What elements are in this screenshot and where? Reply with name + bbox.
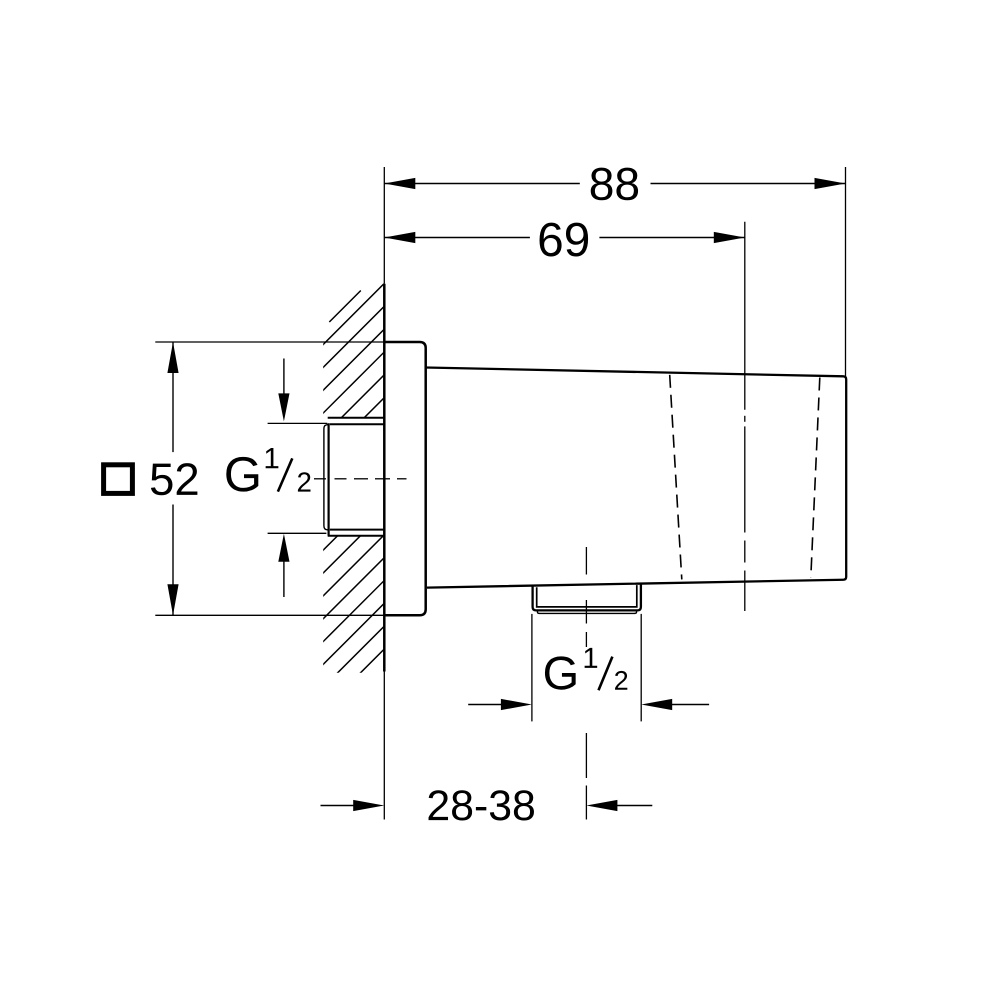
arrowhead 52 top [167, 342, 178, 373]
inlet center line dashed [314, 478, 407, 480]
outlet G1/2 label G [545, 656, 576, 689]
extension line right for dim 88 [845, 167, 847, 376]
dimension line 28-38 left segment [321, 805, 356, 807]
arrowhead 28-38 right [586, 800, 617, 811]
dimension line 69 [384, 237, 745, 239]
inlet nipple end face [328, 423, 330, 535]
inlet G1/2 label denominator 2 [298, 472, 311, 491]
wall section line [383, 284, 386, 672]
dimension line 28-38 right segment [615, 805, 652, 807]
arrowhead 28-38 left [353, 800, 384, 811]
dimension text 88 [591, 168, 638, 201]
outlet nipple crest outline [533, 584, 641, 611]
arrowhead 52 bottom [167, 584, 178, 615]
dimension text 28-38 [429, 790, 534, 820]
wall hole edge bottom [328, 535, 385, 537]
extension line 52 bottom [155, 614, 384, 616]
escutcheon wall plate [384, 342, 425, 615]
arrowhead 69 left [384, 232, 415, 243]
wall hatching short starter line [329, 291, 361, 323]
dimension line 52 [172, 342, 174, 615]
extension line 52 top [155, 341, 384, 343]
outlet G1/2 label fraction slash [599, 657, 613, 691]
outlet dim extension line right [640, 614, 642, 722]
inlet nipple thread root top [330, 423, 385, 425]
body hidden contour dashed arc left [670, 375, 682, 580]
inlet G1/2 label fraction slash [278, 458, 292, 491]
outlet G1/2 label numerator 1 [585, 648, 598, 668]
arrowhead 88 right [815, 178, 846, 189]
outlet nipple thread root outline [537, 585, 637, 607]
outlet dim arrow left [468, 704, 503, 706]
arrowhead 88 left [384, 178, 415, 189]
inlet nipple chamfer lip [324, 425, 328, 530]
dimension text 69 [540, 223, 589, 257]
arrowhead 69 right [714, 232, 745, 243]
extension+center line for dim 69 through body [744, 222, 746, 611]
inlet dim extension line bottom [268, 532, 327, 534]
inlet nipple thread root bottom [330, 529, 385, 531]
wall hole edge top [328, 417, 385, 419]
body cone outline [426, 368, 847, 588]
dimension text 52 [151, 463, 197, 495]
outlet dim extension line left [531, 614, 533, 722]
body hidden contour dashed arc right [811, 378, 820, 578]
extension line above wall for dims 88/69 [383, 167, 385, 284]
dimension line 88 [384, 183, 845, 185]
inlet dim arrow top [283, 359, 285, 396]
outlet G1/2 label denominator 2 [615, 671, 627, 690]
outlet center line dashed [585, 547, 587, 820]
inlet dim extension line top [268, 422, 328, 424]
inlet G1/2 label G [226, 457, 258, 492]
outlet nipple chamfer lip [537, 611, 636, 614]
inlet dim arrow bottom [283, 560, 285, 597]
extension line below wall for dim 28-38 [383, 672, 385, 820]
square symbol [104, 465, 133, 494]
outlet dim arrow right [670, 704, 709, 706]
inlet G1/2 label numerator 1 [266, 448, 279, 468]
